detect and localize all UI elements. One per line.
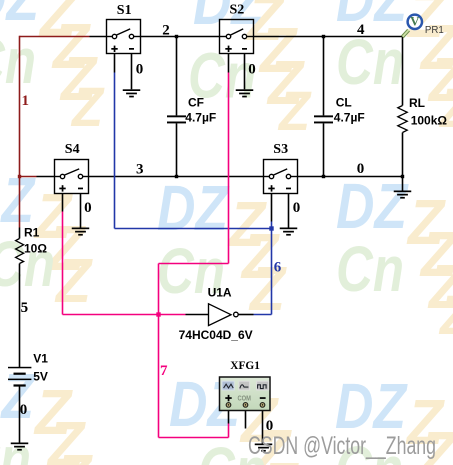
svg-text:0: 0 <box>20 402 28 418</box>
svg-text:4: 4 <box>357 22 365 38</box>
svg-text:R1: R1 <box>24 225 40 239</box>
svg-text:74HC04D_6V: 74HC04D_6V <box>179 328 253 342</box>
svg-text:2: 2 <box>162 23 170 39</box>
svg-text:COM: COM <box>238 396 252 403</box>
svg-text:V: V <box>410 14 420 29</box>
svg-text:100kΩ: 100kΩ <box>411 113 448 127</box>
svg-text:RL: RL <box>409 96 425 110</box>
svg-text:XFG1: XFG1 <box>230 360 260 372</box>
svg-text:10Ω: 10Ω <box>24 242 47 256</box>
svg-text:S1: S1 <box>117 3 132 18</box>
svg-text:5: 5 <box>21 300 29 316</box>
svg-text:5V: 5V <box>33 370 48 384</box>
svg-text:0: 0 <box>136 61 144 77</box>
svg-text:CL: CL <box>336 95 352 109</box>
svg-text:6: 6 <box>274 259 282 275</box>
svg-text:PR1: PR1 <box>425 25 444 36</box>
svg-text:S4: S4 <box>65 142 80 157</box>
svg-text:S2: S2 <box>230 3 245 18</box>
svg-text:0: 0 <box>357 161 365 177</box>
svg-text:4.7µF: 4.7µF <box>334 111 365 125</box>
svg-text:0: 0 <box>248 61 256 77</box>
svg-text:4.7µF: 4.7µF <box>185 111 216 125</box>
svg-text:V1: V1 <box>33 351 48 365</box>
svg-text:3: 3 <box>136 161 144 177</box>
svg-text:0: 0 <box>84 200 92 216</box>
svg-text:S3: S3 <box>273 142 288 157</box>
svg-text:CSDN @Victor__Zhang: CSDN @Victor__Zhang <box>248 432 436 460</box>
svg-text:7: 7 <box>160 363 168 379</box>
svg-text:1: 1 <box>22 93 30 109</box>
svg-text:CF: CF <box>188 95 204 109</box>
svg-text:U1A: U1A <box>208 286 232 300</box>
svg-text:0: 0 <box>293 200 301 216</box>
